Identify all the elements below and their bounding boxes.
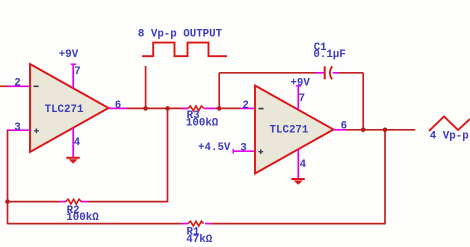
svg-text:47kΩ: 47kΩ bbox=[186, 234, 212, 246]
svg-text:TLC271: TLC271 bbox=[270, 124, 309, 136]
svg-text:100kΩ: 100kΩ bbox=[186, 118, 219, 130]
capacitor C1 bbox=[313, 42, 345, 80]
power +9V (U2) bbox=[290, 77, 310, 110]
svg-text:3: 3 bbox=[240, 143, 246, 155]
square wave annotation bbox=[142, 43, 227, 57]
resistor R1 bbox=[188, 221, 204, 226]
svg-text:TLC271: TLC271 bbox=[45, 104, 84, 116]
svg-text:0.1µF: 0.1µF bbox=[313, 49, 345, 61]
svg-text:2: 2 bbox=[14, 78, 20, 90]
U2 plus input mark bbox=[258, 149, 263, 154]
U1 plus input mark bbox=[34, 128, 39, 133]
wire: vertical from R2 net up to U1 output net bbox=[167, 108, 169, 202]
wire: C1 right to output vertical bbox=[333, 73, 363, 130]
svg-text:7: 7 bbox=[299, 93, 305, 105]
power +9V (U1) bbox=[59, 49, 79, 89]
wire: U2 output pin6 bbox=[334, 129, 416, 131]
svg-text:6: 6 bbox=[115, 100, 121, 112]
U1 minus input mark bbox=[34, 85, 39, 87]
resistor R2 bbox=[66, 199, 82, 204]
node: junction C1 branch bbox=[217, 106, 222, 111]
wire: U1 output pin6 stub bbox=[109, 107, 189, 109]
svg-text:4: 4 bbox=[74, 137, 81, 149]
svg-text:+9V: +9V bbox=[290, 77, 310, 89]
wire: U1 pin3 stub bbox=[7, 129, 30, 131]
wire: bottom R1 net bbox=[8, 223, 386, 225]
resistor R3 bbox=[182, 106, 219, 130]
node: junction R2 branch bbox=[165, 106, 170, 111]
wire: U1 pin2 net to left edge bbox=[0, 85, 30, 87]
triangle wave annotation bbox=[429, 117, 470, 132]
wire: left vertical feedback bbox=[7, 129, 9, 224]
ground (U2) bbox=[291, 179, 304, 185]
svg-text:4: 4 bbox=[300, 159, 307, 171]
node: junction at left / R2 wire bbox=[5, 199, 10, 204]
svg-text:3: 3 bbox=[14, 122, 20, 134]
wire: R2 net horizontal bbox=[8, 201, 168, 203]
wire: up from junction to C1 bbox=[219, 73, 324, 109]
op-amp U2 bbox=[255, 86, 334, 174]
svg-text:+4.5V: +4.5V bbox=[198, 142, 231, 154]
svg-text:4 Vp-p: 4 Vp-p bbox=[430, 130, 469, 142]
wire: U2 pin3 stub bbox=[233, 149, 255, 154]
U2 minus input mark bbox=[259, 108, 264, 110]
wire: stub up toward square wave bbox=[145, 66, 147, 108]
wire: right vertical from output net down to R1 net bbox=[384, 130, 386, 225]
ground (U1) bbox=[66, 158, 79, 164]
wire: R3 to U2 pin2 bbox=[216, 107, 255, 109]
U1 pin4 lead bbox=[72, 128, 74, 158]
U2 pin4 lead bbox=[297, 149, 299, 179]
svg-text:100kΩ: 100kΩ bbox=[66, 212, 99, 224]
op-amp U1 bbox=[30, 64, 109, 152]
svg-text:8 Vp-p OUTPUT: 8 Vp-p OUTPUT bbox=[138, 28, 223, 40]
node: junction C1 return bbox=[361, 128, 366, 133]
svg-text:2: 2 bbox=[242, 100, 248, 112]
svg-text:7: 7 bbox=[74, 66, 80, 78]
svg-text:6: 6 bbox=[341, 120, 347, 132]
node: junction R1 branch bbox=[383, 128, 388, 133]
node: junction square-wave stub bbox=[143, 106, 148, 111]
svg-text:+9V: +9V bbox=[59, 49, 79, 61]
